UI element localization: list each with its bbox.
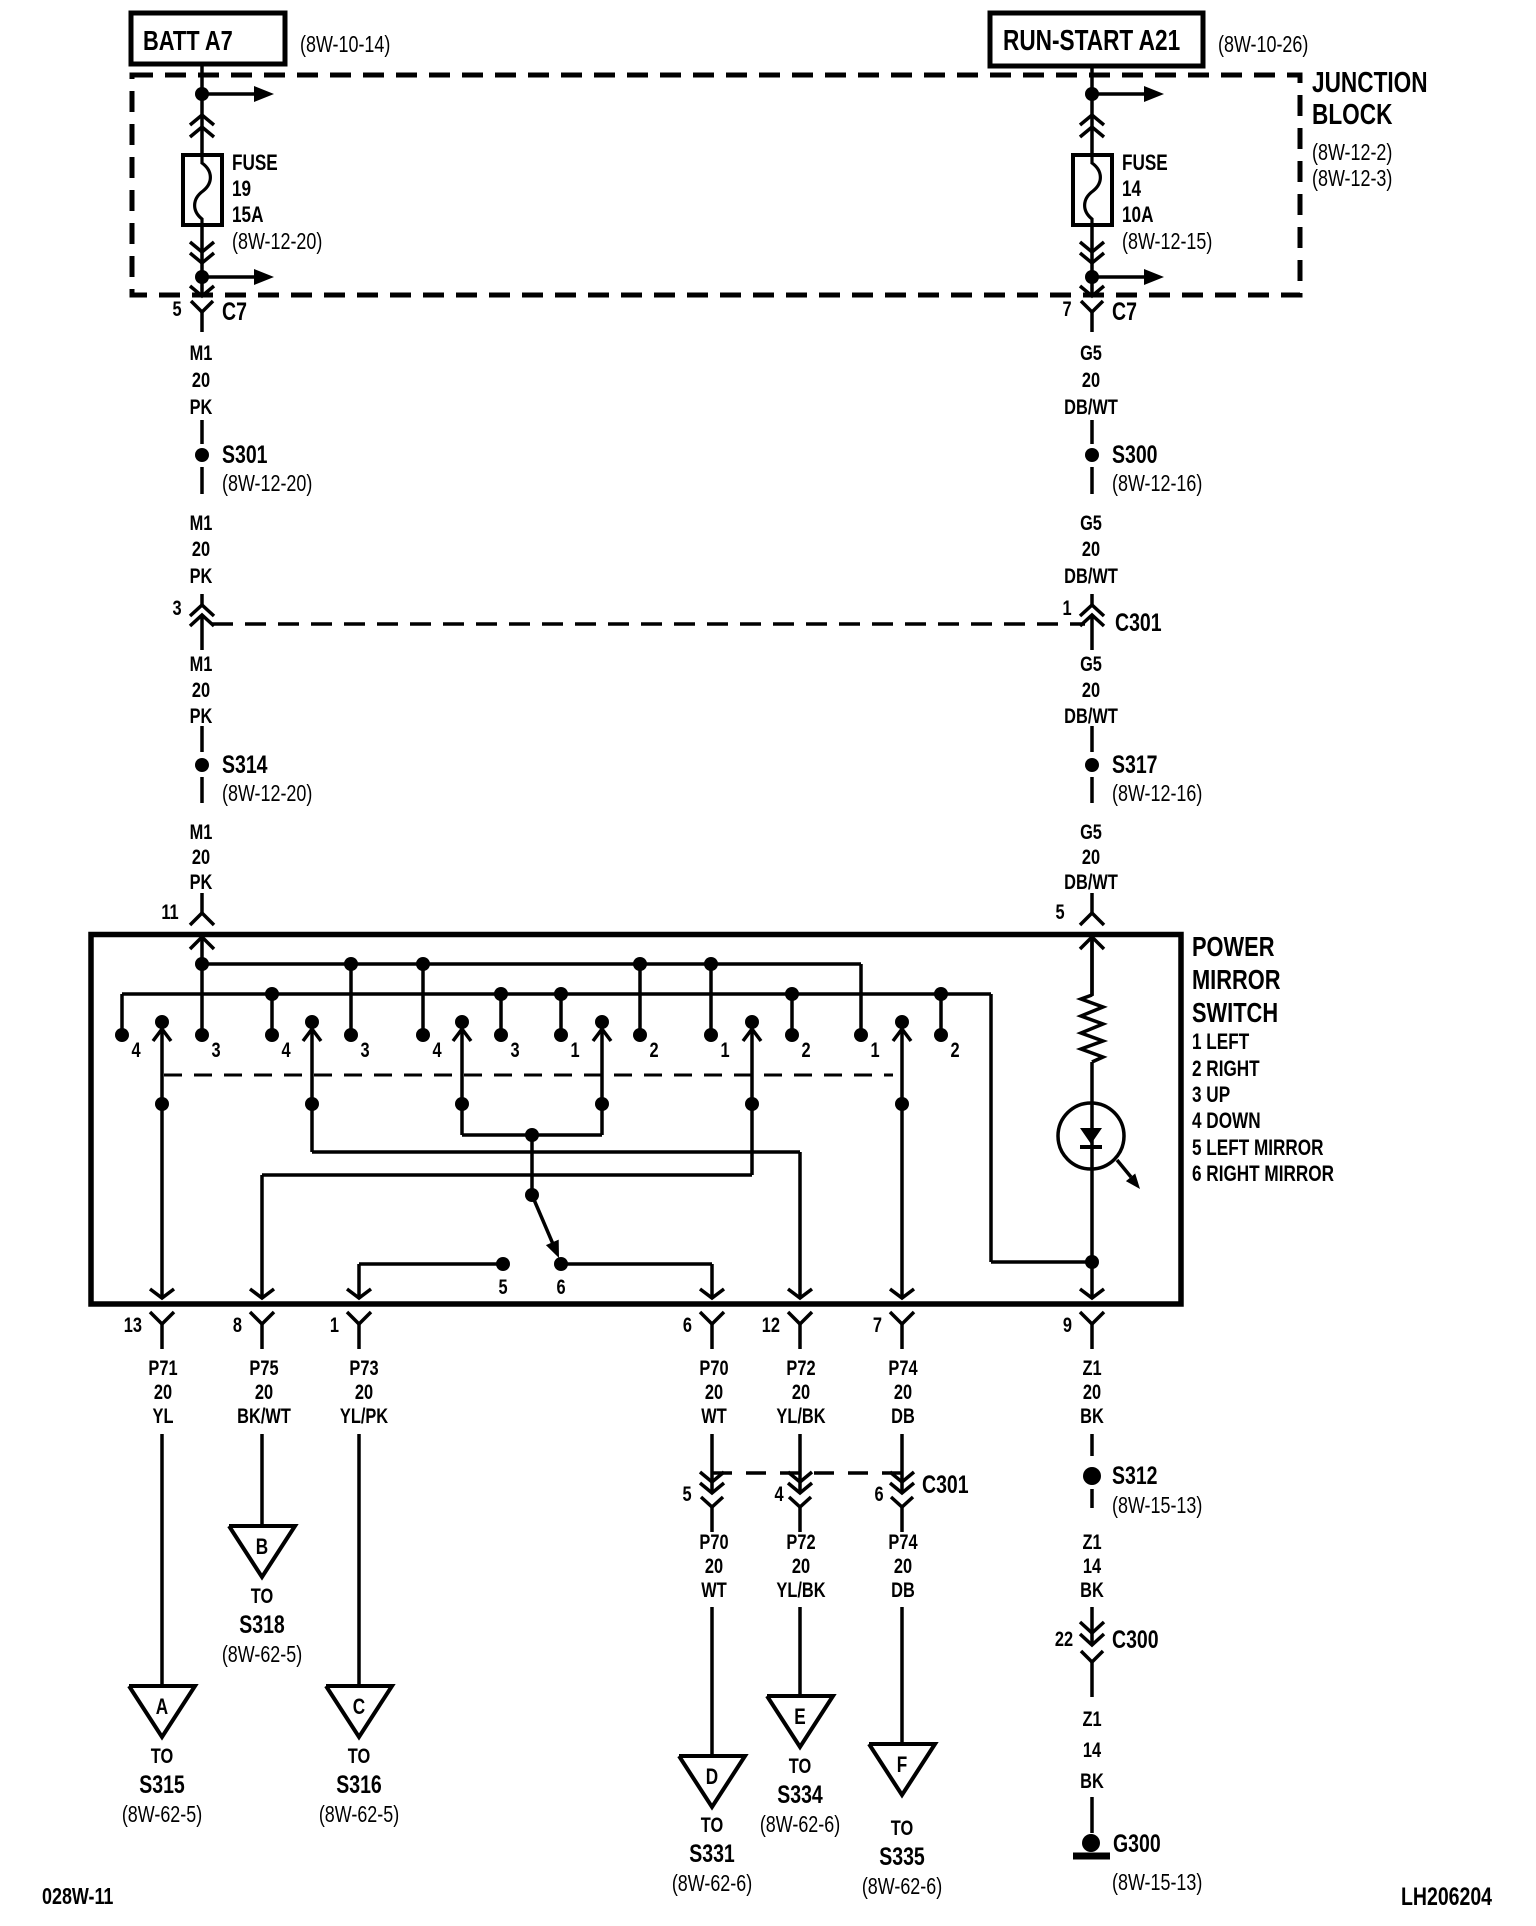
svg-text:DB: DB — [891, 1578, 915, 1601]
svg-text:20: 20 — [705, 1380, 723, 1403]
svg-text:PK: PK — [190, 395, 213, 418]
svg-text:6 RIGHT MIRROR: 6 RIGHT MIRROR — [1192, 1162, 1334, 1187]
svg-text:P70: P70 — [699, 1530, 728, 1553]
svg-text:6: 6 — [874, 1482, 883, 1505]
svg-text:4 DOWN: 4 DOWN — [1192, 1109, 1261, 1134]
svg-text:BK: BK — [1080, 1404, 1104, 1427]
svg-text:BK: BK — [1080, 1578, 1104, 1601]
svg-text:B: B — [256, 1535, 268, 1560]
svg-text:2: 2 — [649, 1038, 658, 1061]
svg-text:6: 6 — [556, 1275, 565, 1298]
svg-text:DB/WT: DB/WT — [1064, 870, 1118, 893]
svg-text:YL/BK: YL/BK — [776, 1404, 825, 1427]
svg-text:(8W-62-5): (8W-62-5) — [319, 1802, 399, 1828]
svg-text:8: 8 — [233, 1313, 242, 1336]
svg-text:4: 4 — [774, 1482, 784, 1505]
svg-text:TO: TO — [251, 1584, 273, 1607]
svg-text:20: 20 — [192, 368, 210, 391]
svg-text:12: 12 — [762, 1313, 780, 1336]
svg-text:PK: PK — [190, 564, 213, 587]
svg-text:20: 20 — [355, 1380, 373, 1403]
svg-text:3: 3 — [172, 596, 181, 619]
svg-text:TO: TO — [151, 1744, 173, 1767]
svg-text:C301: C301 — [1115, 609, 1162, 637]
svg-text:WT: WT — [701, 1578, 727, 1601]
svg-text:20: 20 — [154, 1380, 172, 1403]
svg-text:(8W-12-20): (8W-12-20) — [232, 229, 322, 255]
svg-text:(8W-12-15): (8W-12-15) — [1122, 229, 1212, 255]
svg-text:TO: TO — [891, 1816, 913, 1839]
svg-text:P74: P74 — [888, 1356, 918, 1379]
svg-text:S334: S334 — [777, 1781, 823, 1809]
svg-text:S335: S335 — [879, 1843, 925, 1871]
svg-text:20: 20 — [192, 537, 210, 560]
svg-text:20: 20 — [1082, 678, 1100, 701]
svg-text:1: 1 — [1062, 596, 1071, 619]
svg-text:YL: YL — [153, 1404, 174, 1427]
svg-text:D: D — [706, 1765, 718, 1790]
svg-text:F: F — [897, 1753, 907, 1778]
svg-text:BLOCK: BLOCK — [1312, 97, 1393, 130]
svg-text:DB/WT: DB/WT — [1064, 564, 1118, 587]
svg-text:2: 2 — [950, 1038, 959, 1061]
svg-text:(8W-12-16): (8W-12-16) — [1112, 471, 1202, 497]
svg-text:4: 4 — [432, 1038, 442, 1061]
svg-text:P72: P72 — [786, 1356, 815, 1379]
svg-text:YL/PK: YL/PK — [340, 1404, 389, 1427]
svg-text:5 LEFT MIRROR: 5 LEFT MIRROR — [1192, 1136, 1324, 1161]
svg-text:(8W-12-16): (8W-12-16) — [1112, 781, 1202, 807]
svg-text:M1: M1 — [190, 341, 213, 364]
svg-text:G5: G5 — [1080, 820, 1102, 843]
svg-text:S318: S318 — [239, 1611, 285, 1639]
svg-text:C7: C7 — [1112, 298, 1137, 326]
svg-text:E: E — [794, 1705, 805, 1730]
svg-text:20: 20 — [1082, 537, 1100, 560]
svg-text:13: 13 — [124, 1313, 142, 1336]
svg-text:C300: C300 — [1112, 1626, 1159, 1654]
svg-text:1: 1 — [870, 1038, 879, 1061]
svg-text:4: 4 — [131, 1038, 141, 1061]
svg-text:G5: G5 — [1080, 652, 1102, 675]
svg-text:M1: M1 — [190, 511, 213, 534]
svg-text:G5: G5 — [1080, 341, 1102, 364]
svg-text:PK: PK — [190, 870, 213, 893]
svg-text:DB: DB — [891, 1404, 915, 1427]
svg-text:C: C — [353, 1695, 365, 1720]
svg-text:DB/WT: DB/WT — [1064, 395, 1118, 418]
svg-text:P75: P75 — [249, 1356, 278, 1379]
svg-text:3: 3 — [211, 1038, 220, 1061]
svg-text:BATT A7: BATT A7 — [143, 25, 233, 56]
svg-text:1: 1 — [570, 1038, 579, 1061]
svg-text:1 LEFT: 1 LEFT — [1192, 1030, 1249, 1055]
svg-text:S301: S301 — [222, 441, 268, 469]
svg-text:S312: S312 — [1112, 1462, 1158, 1490]
svg-text:M1: M1 — [190, 652, 213, 675]
svg-text:14: 14 — [1122, 177, 1141, 202]
svg-text:BK: BK — [1080, 1769, 1104, 1792]
svg-text:(8W-12-20): (8W-12-20) — [222, 781, 312, 807]
svg-text:C301: C301 — [922, 1471, 969, 1499]
svg-text:(8W-12-3): (8W-12-3) — [1312, 166, 1392, 192]
svg-text:DB/WT: DB/WT — [1064, 704, 1118, 727]
svg-text:2 RIGHT: 2 RIGHT — [1192, 1057, 1260, 1082]
svg-text:G300: G300 — [1113, 1830, 1161, 1858]
svg-text:2: 2 — [801, 1038, 810, 1061]
svg-text:P71: P71 — [148, 1356, 177, 1379]
svg-text:22: 22 — [1055, 1627, 1073, 1650]
svg-text:LH206204: LH206204 — [1401, 1883, 1492, 1911]
svg-text:C7: C7 — [222, 298, 247, 326]
svg-text:20: 20 — [894, 1554, 912, 1577]
svg-text:TO: TO — [348, 1744, 370, 1767]
svg-text:FUSE: FUSE — [232, 151, 278, 176]
svg-text:Z1: Z1 — [1082, 1707, 1101, 1730]
svg-text:4: 4 — [281, 1038, 291, 1061]
svg-text:S316: S316 — [336, 1771, 382, 1799]
svg-text:(8W-10-14): (8W-10-14) — [300, 32, 390, 58]
svg-text:14: 14 — [1083, 1738, 1102, 1761]
svg-text:6: 6 — [683, 1313, 692, 1336]
svg-text:FUSE: FUSE — [1122, 151, 1168, 176]
svg-text:S314: S314 — [222, 751, 268, 779]
svg-text:14: 14 — [1083, 1554, 1102, 1577]
svg-text:(8W-62-6): (8W-62-6) — [862, 1874, 942, 1900]
svg-text:WT: WT — [701, 1404, 727, 1427]
svg-text:20: 20 — [1082, 845, 1100, 868]
svg-text:SWITCH: SWITCH — [1192, 997, 1278, 1028]
svg-text:(8W-12-20): (8W-12-20) — [222, 471, 312, 497]
svg-text:M1: M1 — [190, 820, 213, 843]
svg-text:19: 19 — [232, 177, 251, 202]
svg-text:3 UP: 3 UP — [1192, 1083, 1230, 1108]
svg-text:15A: 15A — [232, 203, 263, 228]
svg-text:20: 20 — [792, 1554, 810, 1577]
svg-text:20: 20 — [255, 1380, 273, 1403]
svg-text:P74: P74 — [888, 1530, 918, 1553]
svg-text:POWER: POWER — [1192, 931, 1274, 962]
svg-text:20: 20 — [894, 1380, 912, 1403]
svg-text:S300: S300 — [1112, 441, 1158, 469]
svg-text:20: 20 — [1083, 1380, 1101, 1403]
svg-text:028W-11: 028W-11 — [42, 1884, 113, 1910]
svg-text:YL/BK: YL/BK — [776, 1578, 825, 1601]
svg-text:20: 20 — [792, 1380, 810, 1403]
svg-text:(8W-62-5): (8W-62-5) — [122, 1802, 202, 1828]
svg-text:P70: P70 — [699, 1356, 728, 1379]
svg-text:A: A — [156, 1695, 168, 1720]
svg-text:(8W-62-6): (8W-62-6) — [672, 1871, 752, 1897]
svg-text:TO: TO — [701, 1813, 723, 1836]
svg-text:20: 20 — [192, 678, 210, 701]
svg-text:20: 20 — [1082, 368, 1100, 391]
svg-text:JUNCTION: JUNCTION — [1312, 65, 1428, 98]
svg-text:7: 7 — [1062, 297, 1071, 320]
svg-text:11: 11 — [161, 900, 178, 923]
svg-text:Z1: Z1 — [1082, 1530, 1101, 1553]
svg-text:S317: S317 — [1112, 751, 1158, 779]
svg-text:5: 5 — [498, 1275, 507, 1298]
svg-text:10A: 10A — [1122, 203, 1153, 228]
svg-text:RUN-START A21: RUN-START A21 — [1003, 23, 1180, 56]
svg-text:MIRROR: MIRROR — [1192, 964, 1281, 995]
svg-text:S331: S331 — [689, 1840, 735, 1868]
svg-text:P72: P72 — [786, 1530, 815, 1553]
svg-text:(8W-10-26): (8W-10-26) — [1218, 32, 1308, 58]
svg-text:5: 5 — [172, 297, 181, 320]
svg-text:G5: G5 — [1080, 511, 1102, 534]
svg-text:20: 20 — [705, 1554, 723, 1577]
svg-text:1: 1 — [720, 1038, 729, 1061]
svg-text:1: 1 — [330, 1313, 339, 1336]
svg-text:5: 5 — [1055, 900, 1064, 923]
svg-text:P73: P73 — [349, 1356, 378, 1379]
svg-text:3: 3 — [360, 1038, 369, 1061]
svg-text:5: 5 — [682, 1482, 691, 1505]
svg-text:(8W-62-6): (8W-62-6) — [760, 1812, 840, 1838]
svg-text:9: 9 — [1063, 1313, 1072, 1336]
svg-text:(8W-12-2): (8W-12-2) — [1312, 140, 1392, 166]
svg-text:7: 7 — [873, 1313, 882, 1336]
svg-text:BK/WT: BK/WT — [237, 1404, 291, 1427]
svg-text:PK: PK — [190, 704, 213, 727]
svg-text:S315: S315 — [139, 1771, 185, 1799]
svg-text:(8W-15-13): (8W-15-13) — [1112, 1493, 1202, 1519]
svg-text:TO: TO — [789, 1754, 811, 1777]
svg-text:3: 3 — [510, 1038, 519, 1061]
svg-text:(8W-62-5): (8W-62-5) — [222, 1642, 302, 1668]
svg-text:20: 20 — [192, 845, 210, 868]
svg-text:Z1: Z1 — [1082, 1356, 1101, 1379]
svg-text:(8W-15-13): (8W-15-13) — [1112, 1870, 1202, 1896]
